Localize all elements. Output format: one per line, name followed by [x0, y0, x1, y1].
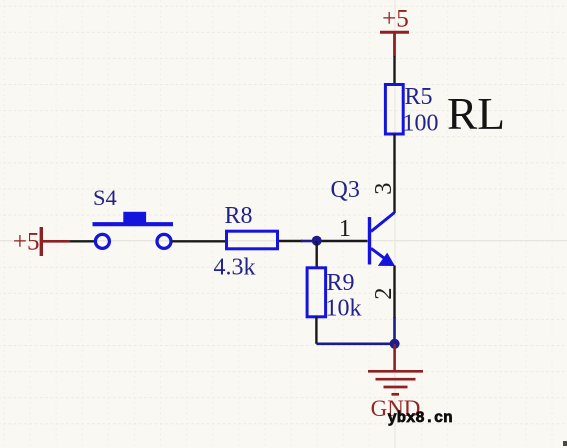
svg-text:S4: S4 — [93, 185, 117, 210]
svg-text:Q3: Q3 — [331, 177, 360, 203]
svg-text:R9: R9 — [327, 270, 355, 296]
svg-text:R8: R8 — [225, 203, 253, 229]
svg-text:4.3k: 4.3k — [214, 255, 256, 281]
svg-text:+5: +5 — [382, 6, 409, 33]
svg-text:100: 100 — [403, 111, 439, 137]
svg-text:R5: R5 — [405, 84, 433, 110]
svg-text:+5: +5 — [13, 229, 40, 256]
svg-text:1: 1 — [339, 215, 351, 242]
svg-text:RL: RL — [447, 88, 505, 139]
svg-text:ybx8.cn: ybx8.cn — [388, 409, 453, 427]
svg-text:10k: 10k — [326, 296, 362, 322]
svg-text:2: 2 — [370, 288, 397, 300]
svg-text:3: 3 — [370, 183, 397, 195]
